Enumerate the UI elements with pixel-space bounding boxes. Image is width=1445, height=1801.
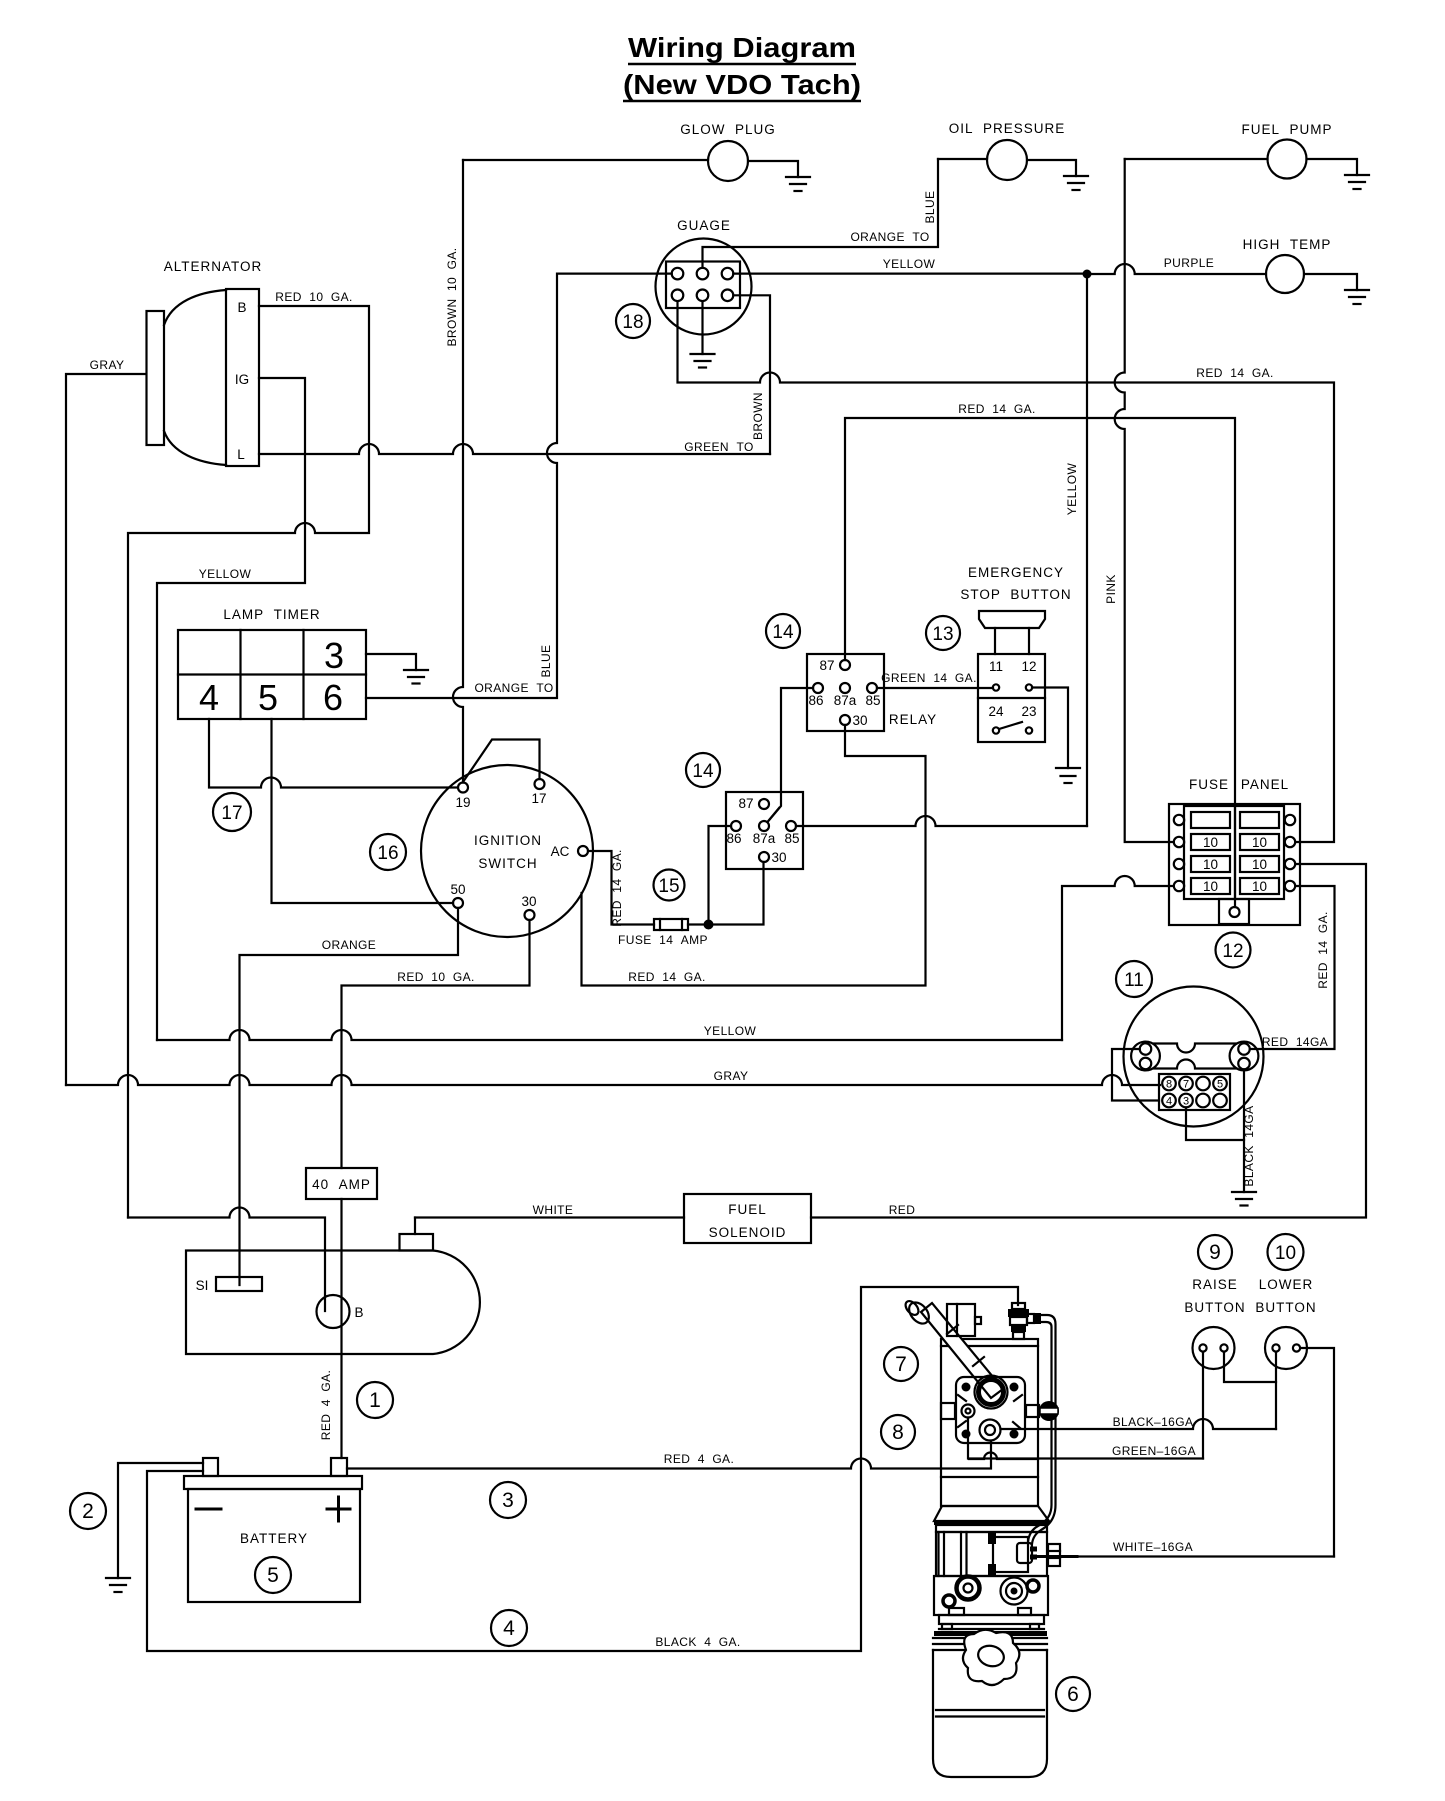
- wire fuel pump feed (from PINK corner): [1125, 158, 1268, 160]
- fuel solenoid: [684, 1194, 811, 1243]
- svg-text:3: 3: [502, 1489, 514, 1512]
- pump tank cone: [934, 1506, 1049, 1532]
- svg-text:Wiring Diagram: Wiring Diagram: [628, 32, 856, 63]
- ground glow plug: [786, 177, 810, 191]
- svg-text:BLUE: BLUE: [923, 191, 937, 224]
- svg-text:PINK: PINK: [1104, 574, 1118, 604]
- svg-text:BROWN: BROWN: [751, 392, 765, 440]
- svg-text:LAMP TIMER: LAMP TIMER: [223, 607, 320, 622]
- svg-text:10: 10: [1203, 857, 1218, 872]
- svg-text:STOP BUTTON: STOP BUTTON: [960, 587, 1071, 602]
- svg-text:FUSE: FUSE: [1189, 777, 1229, 792]
- svg-text:87a: 87a: [753, 831, 776, 846]
- wire RED 10 GA.: alternator B right, down, left, down to starter B link: [128, 306, 369, 1218]
- svg-text:24: 24: [988, 704, 1004, 719]
- label 2: [70, 1493, 106, 1529]
- raise button: [1184, 1277, 1245, 1369]
- svg-text:BUTTON: BUTTON: [1255, 1300, 1316, 1315]
- svg-text:30: 30: [852, 713, 867, 728]
- oil pressure lamp: [949, 121, 1066, 180]
- svg-text:11: 11: [1124, 970, 1144, 991]
- svg-text:RED 10 GA.: RED 10 GA.: [397, 970, 475, 984]
- svg-text:87: 87: [738, 796, 753, 811]
- high temp lamp: [1243, 237, 1332, 293]
- svg-text:ORANGE: ORANGE: [322, 938, 376, 952]
- label 4: [491, 1610, 527, 1646]
- relay 14 upper: [766, 614, 800, 648]
- ground connector 11: [1232, 1192, 1256, 1206]
- svg-text:GREEN TO: GREEN TO: [684, 440, 753, 454]
- svg-text:BATTERY: BATTERY: [240, 1531, 308, 1546]
- wire BLACK 14GA: lobe right-bottom down to ground: [1243, 1070, 1245, 1192]
- pump motor body: [941, 1339, 1038, 1506]
- svg-text:3: 3: [324, 635, 344, 676]
- svg-text:3: 3: [1183, 1096, 1189, 1108]
- svg-text:1: 1: [369, 1389, 381, 1412]
- label 3: [490, 1482, 526, 1518]
- gauge GUAGE circle: [656, 218, 752, 335]
- wire RED 10 GA.: ignition 30 down-left to 40 AMP fuse: [342, 920, 530, 1168]
- pump left bracket: [941, 1403, 955, 1419]
- wire RED 14 GA.: ignition AC right-down to fuse 14 amp: [588, 851, 654, 925]
- pump mounting plate: [956, 1377, 1025, 1443]
- svg-text:11: 11: [989, 659, 1003, 674]
- svg-text:4: 4: [1166, 1096, 1172, 1108]
- svg-text:HIGH TEMP: HIGH TEMP: [1243, 237, 1332, 252]
- wire WHITE: starter tab to fuel solenoid: [415, 1216, 684, 1218]
- pump solenoid connector: [1017, 1543, 1037, 1563]
- svg-text:AC: AC: [551, 844, 570, 859]
- wire ORANGE: ignition 50 down-left to SI vertical: [240, 908, 459, 1285]
- svg-text:RED 14 GA.: RED 14 GA.: [610, 849, 624, 927]
- relay 14 lower: [686, 753, 720, 787]
- svg-text:FUEL: FUEL: [728, 1202, 767, 1217]
- svg-text:87a: 87a: [834, 693, 857, 708]
- wire lower-left pin down to BLACK-16GA: [1275, 1352, 1277, 1429]
- ignition pin 50: [453, 898, 463, 908]
- svg-text:12: 12: [1222, 941, 1243, 962]
- gauge pin bottom-middle: [697, 290, 709, 302]
- wire YELLOW vertical: junction dot down to relay2-85 wire: [1086, 274, 1088, 826]
- svg-text:BROWN 10 GA.: BROWN 10 GA.: [445, 248, 459, 347]
- svg-text:86: 86: [726, 831, 741, 846]
- reservoir seal band: [934, 1631, 1047, 1636]
- emergency stop button: [960, 565, 1071, 742]
- wire connector lobe left to pin box row 2: [1112, 1049, 1159, 1101]
- battery: [184, 1458, 362, 1602]
- wire BLACK 4 GA.: battery minus around to pump frame: [147, 1287, 1018, 1651]
- wire oil pressure to ground: [1027, 160, 1076, 176]
- label 5: [255, 1557, 291, 1593]
- glow plug lamp: [680, 122, 776, 181]
- wire BROWN 10 GA.: glow plug down (hops lamp6 wire) to ignition pin 19: [453, 160, 463, 783]
- svg-text:RED 14GA: RED 14GA: [1262, 1035, 1328, 1049]
- wire PURPLE junction dot to high temp (hops PINK): [1087, 264, 1266, 274]
- svg-text:BLUE: BLUE: [539, 645, 553, 678]
- wire relay1 86 left-down to relay2 87a arm: [768, 688, 814, 822]
- label 7: [884, 1347, 918, 1381]
- wire YELLOW: gauge top-right pin to junction dot: [733, 273, 1087, 275]
- wire fuse row4 left to YELLOW corner (hop): [1062, 876, 1174, 1040]
- pump flange: [939, 1615, 1044, 1629]
- svg-text:4: 4: [199, 677, 219, 718]
- fuse panel: [1169, 777, 1300, 925]
- svg-text:RED 4 GA.: RED 4 GA.: [319, 1370, 333, 1440]
- svg-text:86: 86: [808, 693, 823, 708]
- svg-text:PANEL: PANEL: [1241, 777, 1289, 792]
- wire lamp timer 4 to ignition pin 19 (hops 5-wire): [209, 719, 458, 788]
- svg-text:17: 17: [531, 791, 546, 806]
- svg-text:B: B: [237, 300, 246, 315]
- ignition pin AC: [578, 846, 588, 856]
- svg-text:2: 2: [82, 1500, 94, 1523]
- wire starter B link from RED 10 GA. (hops ORANGE/SI vertical): [128, 1208, 325, 1312]
- ground fuel pump: [1345, 175, 1369, 189]
- wire GRAY: alternator to left edge and down: [66, 374, 146, 1085]
- wire battery minus to ground: [118, 1463, 203, 1578]
- wire BLACK-16GA: pump center port to raise/lower buttons (hops raise-left): [1001, 1419, 1277, 1429]
- svg-text:15: 15: [658, 876, 679, 897]
- pump right hex fitting: [1048, 1544, 1060, 1566]
- svg-text:10: 10: [1252, 879, 1267, 894]
- wire RED 4 GA.: 40 AMP down through starter B to battery plus: [340, 1199, 342, 1458]
- wire RED 4 GA. battery plus to pump motor (hops BLACK 4 GA. vertical): [347, 1441, 991, 1469]
- svg-text:RED 14 GA.: RED 14 GA.: [1196, 366, 1274, 380]
- svg-text:5: 5: [1217, 1079, 1223, 1091]
- label 9: [1198, 1235, 1232, 1269]
- wire alternator IG down then YELLOW left and down: [157, 378, 305, 1040]
- wire BLUE: gauge top-left pin down (hops GREEN TO) to ORANGE TO lamp timer 6: [366, 274, 672, 698]
- wire raise-left pin down to GREEN-16GA: [1202, 1352, 1204, 1459]
- reservoir body: [933, 1650, 1047, 1777]
- wire fuel pump to ground: [1307, 159, 1358, 175]
- svg-text:30: 30: [771, 850, 786, 865]
- svg-text:RELAY: RELAY: [889, 712, 937, 727]
- svg-text:B: B: [354, 1305, 363, 1320]
- label 17: [213, 793, 251, 831]
- fuse FUSE 14 AMP: [618, 919, 708, 947]
- node fuse output junction dot: [704, 920, 714, 930]
- svg-text:BLACK–16GA: BLACK–16GA: [1113, 1415, 1194, 1429]
- svg-text:6: 6: [323, 677, 343, 718]
- svg-text:EMERGENCY: EMERGENCY: [968, 565, 1064, 580]
- connector 11 bar with lobes: [1131, 1042, 1258, 1071]
- svg-text:L: L: [237, 447, 245, 462]
- label 18: [616, 304, 650, 338]
- svg-text:5: 5: [267, 1564, 279, 1587]
- node junction dot YELLOW/PURPLE: [1083, 270, 1092, 279]
- svg-text:GUAGE: GUAGE: [677, 218, 731, 233]
- wire fuse row3 right to fuel solenoid RED: [811, 864, 1366, 1218]
- wire GREEN 14 GA.: relay1 85 to emergency stop contact 11: [877, 687, 993, 689]
- svg-text:WHITE–16GA: WHITE–16GA: [1113, 1540, 1193, 1554]
- wire oil pressure feed from BLUE vertical: [938, 158, 987, 160]
- svg-text:17: 17: [221, 803, 242, 824]
- pump left bolt: [962, 1405, 975, 1418]
- wire ORANGE TO BLUE: gauge top-middle pin to oil pressure: [703, 159, 939, 268]
- fuel pump lamp: [1241, 122, 1332, 179]
- label 13: [926, 616, 960, 650]
- ground lamp timer: [404, 670, 428, 684]
- label 6: [1056, 1677, 1090, 1711]
- gauge connector block: [666, 262, 740, 309]
- connector 11 circle: [1124, 987, 1264, 1127]
- svg-text:BLACK 4 GA.: BLACK 4 GA.: [655, 1635, 740, 1649]
- svg-text:7: 7: [895, 1353, 907, 1376]
- wire BROWN: gauge bottom-right pin right then down to GREEN TO corner: [733, 295, 770, 454]
- svg-text:10: 10: [1275, 1243, 1296, 1264]
- ground emergency stop: [1056, 768, 1080, 783]
- wire raise-right pin U-link to lower-left junction: [1224, 1352, 1276, 1382]
- pump valve block: [934, 1576, 1048, 1615]
- label 8: [881, 1415, 915, 1449]
- gauge pin bottom-right: [722, 290, 734, 302]
- wire GREEN TO: alternator L right to BROWN corner (hops B and BROWN 10GA verticals): [259, 444, 770, 454]
- pump valve section: [936, 1532, 1047, 1576]
- svg-text:10: 10: [1252, 835, 1267, 850]
- svg-text:18: 18: [622, 312, 643, 333]
- gauge pin bottom-left: [672, 290, 684, 302]
- pump top fitting: [1008, 1303, 1041, 1339]
- ignition pin 30: [525, 910, 535, 920]
- svg-text:SOLENOID: SOLENOID: [709, 1225, 787, 1240]
- title: [623, 32, 861, 101]
- wire lower-right pin to WHITE-16GA vertical: [1300, 1348, 1334, 1557]
- wire PINK: fuel pump corner down (hops RED14GA wires) to fuse row2 left: [1115, 159, 1174, 842]
- wire high temp to ground: [1304, 274, 1357, 290]
- svg-text:40 AMP: 40 AMP: [312, 1177, 371, 1192]
- svg-text:FUSE 14 AMP: FUSE 14 AMP: [618, 933, 708, 947]
- svg-text:13: 13: [932, 624, 953, 645]
- svg-text:23: 23: [1021, 704, 1036, 719]
- svg-text:ORANGE TO: ORANGE TO: [474, 681, 553, 695]
- svg-text:4: 4: [503, 1617, 515, 1640]
- svg-text:19: 19: [455, 795, 470, 810]
- ground high temp: [1345, 290, 1369, 304]
- label 16: [370, 834, 406, 870]
- wire lamp timer 3 to ground: [366, 654, 416, 670]
- wire connector pin 3 to ground vertical: [1186, 1107, 1244, 1140]
- gauge pin top-middle: [697, 268, 709, 280]
- reservoir filler cap: [963, 1630, 1019, 1685]
- svg-text:RED 4 GA.: RED 4 GA.: [664, 1452, 734, 1466]
- svg-text:RED 10 GA.: RED 10 GA.: [275, 290, 353, 304]
- svg-text:OIL PRESSURE: OIL PRESSURE: [949, 121, 1066, 136]
- svg-text:IGNITION: IGNITION: [474, 833, 542, 848]
- alternator body: [147, 259, 263, 466]
- svg-text:14: 14: [692, 761, 714, 782]
- wire YELLOW long: from alternator IG corner to fuse row4 (hops ORANGE and RED10GA verticals): [157, 1030, 1062, 1040]
- pump inlet hose assembly: [903, 1299, 1003, 1398]
- svg-text:30: 30: [521, 894, 536, 909]
- pump hoses right side: [1028, 1315, 1056, 1544]
- svg-text:10: 10: [1203, 879, 1218, 894]
- wire gauge bottom-middle pin to ground: [701, 301, 703, 354]
- svg-text:87: 87: [819, 658, 834, 673]
- svg-text:SWITCH: SWITCH: [478, 856, 537, 871]
- wire emergency 12 to ground: [1032, 688, 1068, 769]
- ground oil pressure: [1064, 176, 1088, 190]
- wire GREEN-16GA: pump left bolt to raise-left pin: [968, 1418, 1203, 1459]
- wire junction up to relay2 pin 86: [709, 826, 732, 925]
- label 1: [357, 1382, 393, 1418]
- svg-text:IG: IG: [235, 372, 249, 387]
- svg-text:RED 14 GA.: RED 14 GA.: [958, 402, 1036, 416]
- svg-text:FUEL PUMP: FUEL PUMP: [1241, 122, 1332, 137]
- svg-text:SI: SI: [196, 1278, 209, 1293]
- wire glow plug to ground: [748, 161, 798, 177]
- svg-text:RAISE: RAISE: [1192, 1277, 1238, 1292]
- wire starter tab stub: [414, 1218, 416, 1235]
- svg-text:GRAY: GRAY: [714, 1069, 749, 1083]
- connector 11 pin box: [1159, 1074, 1230, 1110]
- svg-text:10: 10: [1203, 835, 1218, 850]
- label 15: [654, 870, 685, 901]
- wire RED 14 GA.: relay1 87 up and right to fuse panel center: [845, 418, 1235, 907]
- wire RED 14 GA.: gauge bottom-left pin to fuse panel row2 right (hops BROWN): [678, 301, 1335, 842]
- svg-text:PURPLE: PURPLE: [1164, 256, 1214, 270]
- svg-text:85: 85: [784, 831, 799, 846]
- svg-text:8: 8: [1166, 1079, 1172, 1091]
- ignition switch: [421, 740, 593, 938]
- svg-text:6: 6: [1067, 1683, 1079, 1706]
- svg-text:ORANGE TO: ORANGE TO: [850, 230, 929, 244]
- svg-text:7: 7: [1183, 1079, 1189, 1091]
- svg-text:BUTTON: BUTTON: [1184, 1300, 1245, 1315]
- ground battery: [106, 1578, 130, 1592]
- gauge pin top-right: [722, 268, 734, 280]
- svg-text:BLACK 14GA: BLACK 14GA: [1242, 1105, 1256, 1186]
- 40 AMP fuse: [306, 1168, 377, 1199]
- pump upper port: [975, 1376, 1008, 1409]
- svg-text:8: 8: [892, 1421, 904, 1444]
- lamp timer: [178, 607, 366, 719]
- label 11: [1116, 961, 1152, 997]
- pump right fitting: [1026, 1401, 1059, 1421]
- svg-text:(New VDO Tach): (New VDO Tach): [623, 69, 861, 100]
- svg-text:9: 9: [1209, 1241, 1221, 1264]
- pump center port: [980, 1420, 1001, 1441]
- lower button: [1255, 1277, 1316, 1369]
- wire fuse output to junction and relay2 pin 30: [688, 862, 764, 925]
- reservoir neck rings: [933, 1638, 1047, 1650]
- svg-text:GREEN 14 GA.: GREEN 14 GA.: [881, 671, 977, 685]
- svg-text:RED 14 GA.: RED 14 GA.: [628, 970, 706, 984]
- wire relay1 30 down-right-down to RED 14 GA. return: [582, 725, 926, 986]
- svg-text:RED: RED: [889, 1203, 916, 1217]
- svg-text:RED 14 GA.: RED 14 GA.: [1316, 911, 1330, 989]
- svg-text:14: 14: [772, 622, 794, 643]
- svg-text:YELLOW: YELLOW: [1065, 463, 1079, 516]
- wire WHITE-16GA: pump solenoid to lower button right pin: [1037, 1555, 1334, 1557]
- svg-text:10: 10: [1252, 857, 1267, 872]
- svg-text:LOWER: LOWER: [1259, 1277, 1314, 1292]
- svg-text:16: 16: [377, 843, 398, 864]
- wire glow plug feed (BROWN 10 GA. from corner): [463, 159, 708, 161]
- ground gauge: [691, 354, 715, 368]
- svg-text:GLOW PLUG: GLOW PLUG: [680, 122, 776, 137]
- wire relay2 85 right to YELLOW vertical (hops relay1-30 wire): [796, 816, 1087, 826]
- svg-text:50: 50: [450, 882, 465, 897]
- wire GRAY long: left edge to connector 11 pin box (hops B, ORANGE, RED10GA, lobe verticals): [66, 1075, 1160, 1085]
- svg-text:GREEN–16GA: GREEN–16GA: [1112, 1444, 1196, 1458]
- svg-text:5: 5: [258, 677, 278, 718]
- svg-text:YELLOW: YELLOW: [704, 1024, 757, 1038]
- svg-text:YELLOW: YELLOW: [883, 257, 936, 271]
- label 12: [1216, 933, 1251, 968]
- svg-text:12: 12: [1021, 659, 1036, 674]
- gauge pin top-left: [672, 268, 684, 280]
- wire fuse row4 right down to connector 11 lobe: [1250, 886, 1335, 1049]
- ignition pin 17: [535, 779, 545, 789]
- wire lamp timer 5 to ignition pin 50: [272, 719, 454, 903]
- ignition pin 19: [458, 783, 468, 793]
- svg-text:85: 85: [865, 693, 880, 708]
- label 10: [1268, 1234, 1304, 1270]
- starter body: [186, 1234, 480, 1354]
- svg-text:ALTERNATOR: ALTERNATOR: [164, 259, 263, 274]
- svg-text:WHITE: WHITE: [533, 1203, 574, 1217]
- svg-text:YELLOW: YELLOW: [199, 567, 252, 581]
- svg-text:GRAY: GRAY: [90, 358, 125, 372]
